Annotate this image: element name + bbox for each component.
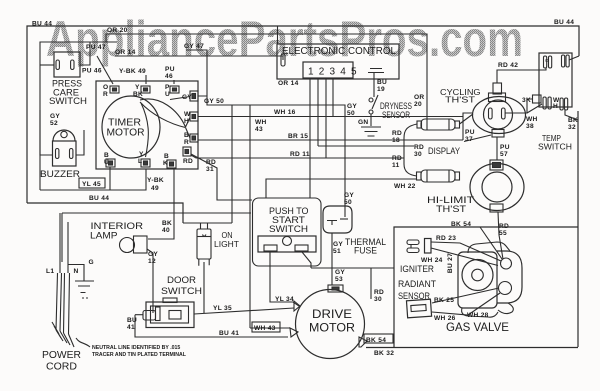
svg-text:R: R (103, 91, 108, 98)
svg-text:Y: Y (139, 151, 144, 158)
svg-text:MOTOR: MOTOR (309, 321, 355, 335)
svg-text:37: 37 (465, 136, 473, 143)
svg-text:WH 43: WH 43 (254, 325, 276, 332)
svg-text:N: N (74, 268, 79, 275)
igniter label (400, 264, 434, 274)
igniter (407, 239, 431, 254)
svg-text:RD: RD (374, 289, 384, 296)
svg-text:MOTOR: MOTOR (107, 127, 145, 139)
svg-text:NEUTRAL LINE IDENTIFIED BY .01: NEUTRAL LINE IDENTIFIED BY .015 (92, 345, 180, 351)
label BR 15 (288, 133, 308, 140)
ground symbol GN (361, 127, 381, 140)
svg-text:OR 14: OR 14 (115, 49, 136, 56)
label BK 54 boxed (364, 334, 393, 344)
svg-text:GY: GY (344, 192, 354, 199)
svg-text:H: H (184, 118, 189, 125)
svg-text:PU 46: PU 46 (82, 68, 102, 75)
label GN (358, 119, 369, 126)
svg-text:RD: RD (414, 144, 424, 151)
svg-text:RD: RD (392, 155, 402, 162)
svg-text:30: 30 (374, 296, 382, 303)
label N (74, 268, 79, 275)
label GY 51 (333, 241, 343, 255)
electronic control box (277, 44, 399, 79)
svg-text:GY: GY (50, 113, 60, 120)
push to start section box (253, 198, 322, 266)
wire top line to control box (277, 26, 279, 44)
svg-text:50: 50 (344, 199, 352, 206)
svg-text:WH 22: WH 22 (394, 183, 416, 190)
svg-text:38: 38 (526, 123, 534, 130)
interior lamp (120, 236, 154, 313)
svg-text:41: 41 (127, 324, 135, 331)
label Y-BK 49 top (119, 68, 146, 75)
temp switch label (538, 134, 572, 152)
wire YL34 (270, 252, 299, 306)
timer cam traces (140, 97, 190, 158)
label GY 50 (204, 98, 224, 105)
label BU 41 bottom (219, 330, 239, 337)
dryness sensor (369, 95, 412, 126)
svg-text:Y: Y (135, 84, 140, 91)
wire inner top-left (40, 42, 117, 190)
label GY 50 fuse (344, 192, 354, 206)
svg-text:WH: WH (255, 119, 267, 126)
timer terminal B/R (184, 132, 198, 146)
label WH 43 boxed (252, 322, 280, 332)
power cord N wire (67, 222, 69, 273)
svg-text:YL 35: YL 35 (213, 305, 232, 312)
svg-text:GY: GY (333, 241, 343, 248)
label GY 53 (335, 269, 345, 283)
power cord cables (52, 273, 74, 347)
motor terminal left bottom (290, 328, 298, 337)
svg-text:BK: BK (568, 117, 578, 124)
svg-text:46: 46 (165, 73, 173, 80)
wire Y-BK49 down (145, 75, 147, 84)
wire WH16 bus (198, 116, 463, 118)
label BU 41 (127, 317, 137, 331)
door switch (135, 298, 194, 328)
label WH 16 (274, 109, 296, 116)
svg-text:FUSE: FUSE (354, 246, 377, 256)
svg-text:GY: GY (335, 269, 345, 276)
svg-text:WH 24: WH 24 (421, 257, 443, 264)
on light label (214, 231, 239, 249)
ground symbol power (75, 281, 94, 298)
temp switch box (539, 53, 572, 107)
svg-text:RADIANT: RADIANT (398, 279, 436, 289)
label BK 40 (162, 220, 172, 234)
svg-text:GY: GY (347, 103, 357, 110)
svg-text:49: 49 (151, 185, 159, 192)
svg-text:O: O (545, 58, 549, 63)
svg-text:55: 55 (499, 230, 507, 237)
temp switch terminals BK (560, 98, 568, 110)
wires from control strip down (310, 78, 333, 198)
label RD 18 (392, 130, 402, 144)
svg-text:20: 20 (414, 101, 422, 108)
label RD 42 (498, 62, 518, 69)
svg-text:IGNITER: IGNITER (400, 264, 434, 274)
display label (428, 146, 460, 156)
svg-text:TH'ST: TH'ST (436, 204, 467, 214)
wire timer BK bottom down BK40 (148, 168, 174, 239)
capacitor symbol in control (368, 69, 384, 98)
lower section left edge (61, 213, 63, 262)
gas valve body (458, 242, 522, 317)
label WH 26 (434, 315, 456, 322)
svg-text:18: 18 (392, 137, 400, 144)
thermal fuse (323, 206, 352, 233)
svg-text:57: 57 (500, 151, 508, 158)
svg-text:BU 44: BU 44 (89, 195, 109, 202)
label L1 (46, 268, 54, 275)
svg-text:ELECTRONIC CONTROL: ELECTRONIC CONTROL (282, 45, 396, 57)
timer terminal GY (182, 91, 198, 101)
svg-text:BK: BK (133, 91, 143, 98)
wire GY50 bus (198, 96, 345, 217)
wire RD55 (498, 212, 503, 259)
timer terminal O/R (103, 84, 119, 98)
svg-text:SWITCH: SWITCH (269, 224, 308, 234)
label GY 12 (148, 251, 158, 265)
label OR 14 at control (278, 80, 299, 87)
svg-text:PU: PU (165, 66, 175, 73)
lower section top edge (62, 212, 251, 214)
label RD 30 right (414, 144, 424, 158)
label PU 46 (82, 68, 102, 75)
svg-text:GY: GY (148, 251, 158, 258)
svg-text:BK: BK (162, 220, 172, 227)
svg-text:LIGHT: LIGHT (214, 240, 239, 249)
timer motor circle (102, 96, 160, 158)
wire push right lead (302, 252, 311, 268)
svg-text:30: 30 (414, 151, 422, 158)
wire YL45 (40, 169, 146, 190)
svg-text:L1: L1 (46, 268, 54, 275)
svg-text:BUZZER: BUZZER (40, 169, 81, 179)
watermark AppliancePartsPros.com (46, 11, 523, 67)
gas valve label (446, 320, 509, 334)
label BU 44 top-left (32, 21, 52, 28)
svg-text:H: H (553, 103, 558, 110)
temp switch terminals BU (562, 55, 570, 67)
wire right side BK32 vertical (577, 111, 579, 347)
svg-text:WH 28: WH 28 (467, 312, 489, 319)
wire display S-curve (404, 124, 417, 176)
wire WH43 into motor (250, 327, 290, 329)
wire BU41 bottom (135, 315, 288, 337)
svg-text:TRACER AND TIN PLATED TERMINAL: TRACER AND TIN PLATED TERMINAL (92, 352, 187, 358)
label RD 11 right (392, 155, 402, 169)
neutral note (76, 338, 187, 358)
svg-text:R: R (184, 139, 189, 146)
wire WH43 vertical (249, 105, 251, 328)
timer terminal Y/BK (133, 84, 150, 98)
svg-text:B: B (104, 152, 109, 159)
svg-text:32: 32 (568, 124, 576, 131)
interior lamp label (90, 221, 143, 242)
cycling thermostat (473, 83, 526, 137)
svg-text:OR 14: OR 14 (278, 80, 299, 87)
label RD 11 (290, 151, 310, 158)
svg-text:O: O (103, 84, 108, 91)
push to start label (269, 206, 309, 234)
svg-text:12: 12 (148, 258, 156, 265)
door switch label (161, 275, 202, 297)
resistor 3K (522, 95, 541, 104)
svg-text:OR 20: OR 20 (107, 27, 128, 34)
wires igniter to valve (431, 227, 502, 266)
svg-text:WH: WH (526, 116, 538, 123)
wire RD42 (497, 68, 546, 83)
label WH 38 (526, 116, 538, 130)
push to start switch body (258, 236, 316, 252)
label WH 24 (421, 257, 443, 264)
wire RD11 bus (191, 155, 404, 158)
label WH 28 (467, 312, 489, 319)
label BU 44 left-mid (89, 195, 109, 202)
svg-text:P: P (165, 84, 170, 91)
svg-text:RD 23: RD 23 (436, 235, 456, 242)
label BK 32 bottom (374, 350, 394, 357)
label BU 27 vertical (447, 253, 454, 273)
svg-text:B: B (184, 132, 189, 139)
svg-text:OR: OR (414, 94, 425, 101)
buzzer (40, 130, 81, 179)
label GY 52 (50, 113, 60, 127)
svg-text:POWER: POWER (42, 350, 81, 361)
svg-text:RD 42: RD 42 (498, 62, 518, 69)
hi-limit thermostat (470, 160, 524, 212)
svg-text:SWITCH: SWITCH (161, 286, 202, 297)
svg-text:52: 52 (50, 120, 58, 127)
wire cycling right to 3K (505, 99, 542, 113)
label BK 54 top (451, 221, 471, 228)
timer terminal B/U bottom (104, 152, 115, 167)
wire BK32 bottom (366, 347, 578, 349)
on light (197, 229, 211, 266)
wire BU44 top (27, 26, 579, 223)
wire OR14 (115, 56, 283, 60)
svg-text:LAMP: LAMP (90, 231, 118, 242)
label OR 20 vertical (414, 94, 425, 108)
label BK 25 (434, 297, 454, 304)
radiant sensor label (398, 279, 436, 301)
wire BR15 bus (198, 139, 463, 141)
label G (89, 259, 94, 266)
svg-text:Y-BK 49: Y-BK 49 (119, 68, 146, 75)
temp switch terminals OR (544, 56, 552, 68)
thermal fuse label (345, 237, 386, 256)
power cord L1 wire (59, 213, 61, 273)
svg-text:51: 51 (333, 248, 341, 255)
temp switch terminals WH (543, 97, 560, 110)
svg-text:DRIVE: DRIVE (312, 307, 352, 321)
svg-text:SENSOR: SENSOR (382, 110, 410, 120)
svg-text:GY 50: GY 50 (204, 98, 224, 105)
label RD 23 (436, 235, 456, 242)
label WH 43 (255, 119, 267, 133)
motor terminal top (328, 285, 343, 292)
wire to ground (68, 265, 84, 282)
timer box (96, 81, 198, 169)
label RD 31 (206, 159, 216, 173)
label WH 22 (394, 183, 416, 190)
label RD 55 (499, 223, 509, 237)
svg-text:U: U (165, 91, 170, 98)
timer terminal P/U (165, 84, 179, 98)
display lamp bottom (417, 170, 460, 182)
svg-text:BU: BU (127, 317, 137, 324)
wire to gas valve y268 (311, 267, 394, 269)
svg-text:BK 54: BK 54 (366, 337, 386, 344)
svg-text:DOOR: DOOR (167, 275, 196, 286)
svg-text:YL 45: YL 45 (82, 181, 101, 188)
timer terminal RD (183, 147, 193, 165)
svg-text:BU 27: BU 27 (447, 253, 454, 273)
wire BU44 into temp (569, 56, 579, 60)
wire buzzer leads (40, 110, 84, 155)
label BU 19 (377, 79, 387, 93)
svg-text:1 2 3 4 5: 1 2 3 4 5 (308, 67, 358, 78)
label YL 34 (275, 296, 294, 303)
svg-text:PU: PU (500, 144, 510, 151)
label PU 37 (465, 129, 475, 143)
label GY 50 mid (347, 103, 357, 117)
hi-limit label (427, 195, 475, 214)
svg-text:BK 32: BK 32 (374, 350, 394, 357)
svg-text:BK 25: BK 25 (434, 297, 454, 304)
electronic control terminal strip 12345 (303, 62, 358, 78)
gas valve section box (394, 227, 578, 347)
motor terminal right bottom (359, 337, 367, 347)
label RD 30 motor (374, 289, 384, 303)
svg-text:3K: 3K (522, 97, 531, 104)
svg-text:RD 11: RD 11 (290, 151, 310, 158)
svg-text:GAS VALVE: GAS VALVE (446, 320, 509, 334)
svg-text:BU: BU (377, 79, 387, 86)
svg-text:CORD: CORD (46, 362, 77, 373)
timer terminal W/H (184, 111, 198, 125)
wire RD31 (191, 154, 252, 200)
label YL 45 boxed (79, 178, 105, 188)
svg-text:YL 34: YL 34 (275, 296, 294, 303)
svg-text:DISPLAY: DISPLAY (428, 146, 460, 156)
svg-text:PU: PU (465, 129, 475, 136)
radiant sensor (406, 299, 431, 318)
svg-text:BK 54: BK 54 (451, 221, 471, 228)
svg-text:BU 41: BU 41 (219, 330, 239, 337)
svg-text:ON: ON (222, 231, 233, 240)
wire BK temp down (565, 110, 578, 120)
wire display lamp to cycling (460, 114, 474, 124)
label BK 32 right (568, 117, 578, 131)
label GY 47 (184, 43, 204, 50)
on light wires (183, 105, 232, 313)
label YL 35 (213, 305, 232, 312)
wire timer BU bottom down (109, 167, 111, 190)
timer terminal Y/L bottom (138, 151, 150, 167)
wire GY51 fuse to motor (331, 233, 333, 285)
svg-text:11: 11 (392, 162, 400, 169)
svg-text:RD: RD (183, 158, 193, 165)
motor terminal left top (294, 301, 300, 311)
svg-text:PU 47: PU 47 (86, 44, 106, 51)
display lamp top (417, 119, 460, 130)
cycling label (440, 88, 481, 105)
svg-text:GY 47: GY 47 (184, 43, 204, 50)
svg-text:43: 43 (255, 126, 263, 133)
wire WH22 bus (266, 179, 417, 198)
timer terminal B/K bottom (163, 153, 176, 168)
svg-text:WH 16: WH 16 (274, 109, 296, 116)
svg-text:RD: RD (392, 130, 402, 137)
svg-text:TH'ST: TH'ST (445, 96, 475, 105)
label OR 20 (107, 27, 128, 34)
label Y-BK 49 bottom (147, 177, 164, 192)
svg-text:SWITCH: SWITCH (538, 143, 572, 152)
wires radiant to valve (432, 288, 500, 315)
svg-text:31: 31 (206, 166, 214, 173)
wire RD30 to motor (370, 268, 372, 299)
svg-text:53: 53 (335, 276, 343, 283)
svg-text:BU 44: BU 44 (554, 19, 574, 26)
wire GY47 (186, 50, 207, 96)
press care switch (40, 42, 90, 106)
wire PU46b down (173, 80, 175, 84)
wire PU46 diagonal to timer (97, 56, 113, 84)
svg-text:GN: GN (358, 119, 369, 126)
wire YL35 (194, 308, 294, 314)
svg-text:19: 19 (377, 86, 385, 93)
power cord label (42, 350, 81, 373)
svg-text:BR 15: BR 15 (288, 133, 308, 140)
label PU 47 (86, 44, 106, 51)
wire OR20 top bus (106, 34, 427, 119)
svg-text:40: 40 (162, 227, 170, 234)
label PU 57 (500, 144, 510, 158)
label BU 44 top-right (554, 19, 574, 26)
label OR 14 (115, 49, 136, 56)
svg-text:B: B (164, 153, 169, 160)
svg-text:GY: GY (182, 94, 192, 101)
svg-text:BU 44: BU 44 (32, 21, 52, 28)
label PU 46 second (165, 66, 175, 80)
wire cycling left to PU37 (463, 113, 491, 142)
wire RD30 bus (318, 145, 414, 147)
drive motor (296, 290, 365, 359)
svg-text:SWITCH: SWITCH (49, 96, 87, 106)
svg-text:Y-BK: Y-BK (147, 177, 164, 184)
wire PU57 (496, 137, 498, 160)
svg-text:G: G (89, 259, 94, 266)
